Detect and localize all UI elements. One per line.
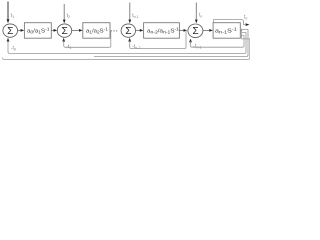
svg-text:Σ: Σ (7, 26, 13, 37)
svg-text:Σ: Σ (61, 26, 67, 37)
svg-text:Σ: Σ (192, 26, 198, 37)
svg-text:Σ: Σ (125, 26, 131, 37)
